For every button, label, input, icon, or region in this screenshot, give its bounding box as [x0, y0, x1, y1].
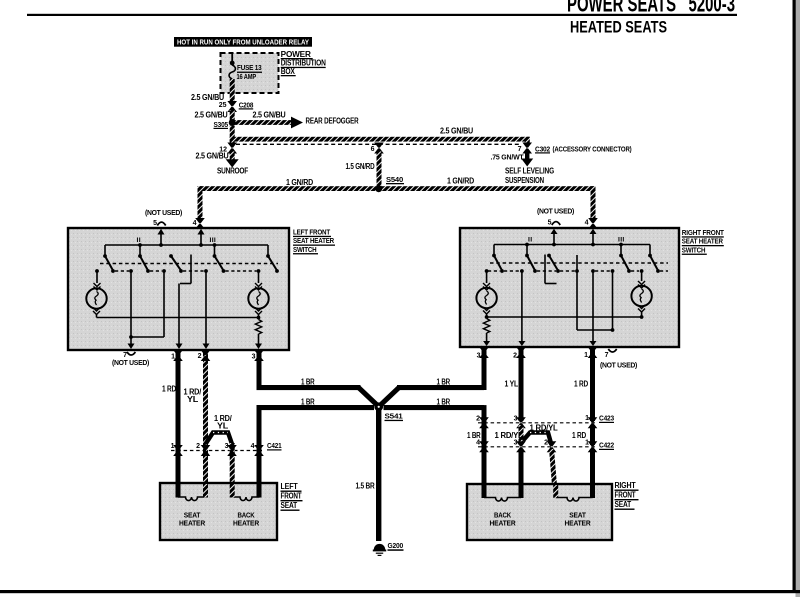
svg-text:1: 1 [584, 352, 588, 359]
svg-text:1 RD/YL: 1 RD/YL [495, 431, 523, 440]
svg-text:1 BR: 1 BR [437, 397, 451, 406]
svg-text:S305: S305 [214, 122, 229, 129]
svg-text:4: 4 [585, 220, 589, 227]
svg-text:7: 7 [123, 352, 127, 359]
svg-text:BOX: BOX [281, 67, 296, 76]
svg-text:1 YL: 1 YL [505, 380, 519, 389]
svg-text:3: 3 [252, 354, 256, 361]
svg-text:2.5 GN/BU: 2.5 GN/BU [195, 110, 228, 119]
svg-text:3: 3 [477, 353, 481, 360]
svg-text:5: 5 [548, 220, 552, 227]
svg-text:1: 1 [585, 440, 589, 447]
svg-text:3: 3 [514, 416, 518, 423]
svg-text:4: 4 [251, 443, 255, 450]
svg-text:FRONT: FRONT [281, 492, 302, 501]
svg-text:C423: C423 [599, 416, 614, 423]
svg-text:2: 2 [476, 416, 480, 423]
svg-text:7: 7 [605, 352, 609, 359]
svg-text:III: III [618, 237, 625, 244]
svg-text:.75 GN/WT: .75 GN/WT [491, 155, 525, 162]
svg-text:1 BR: 1 BR [301, 397, 315, 406]
svg-text:1.5 GN/RD: 1.5 GN/RD [346, 162, 375, 171]
svg-text:(ACCESSORY CONNECTOR): (ACCESSORY CONNECTOR) [553, 146, 632, 153]
svg-text:1.5 BR: 1.5 BR [356, 482, 375, 491]
svg-text:2: 2 [196, 443, 200, 450]
svg-text:(NOT USED): (NOT USED) [112, 360, 149, 367]
svg-text:HEATED SEATS: HEATED SEATS [570, 19, 667, 37]
svg-text:HEATER: HEATER [490, 519, 517, 528]
svg-text:SUSPENSION: SUSPENSION [505, 176, 544, 185]
svg-text:1 BR: 1 BR [301, 377, 315, 386]
svg-text:16 AMP: 16 AMP [237, 72, 257, 81]
svg-text:C208: C208 [239, 102, 254, 109]
svg-text:POWER SEATS 5200-3: POWER SEATS 5200-3 [567, 0, 735, 17]
svg-text:SEAT: SEAT [615, 500, 632, 509]
svg-text:G200: G200 [388, 543, 404, 550]
svg-text:II: II [137, 237, 141, 244]
svg-text:LEFT FRONT: LEFT FRONT [293, 230, 331, 237]
svg-text:FUSE 13: FUSE 13 [237, 63, 262, 72]
svg-text:1 GN/RD: 1 GN/RD [447, 176, 474, 185]
svg-text:YL: YL [217, 422, 228, 431]
svg-text:(NOT USED): (NOT USED) [145, 210, 182, 217]
svg-text:HEATER: HEATER [233, 519, 260, 528]
svg-text:1 GN/RD: 1 GN/RD [286, 178, 313, 187]
svg-text:HOT IN RUN ONLY FROM UNLOADER: HOT IN RUN ONLY FROM UNLOADER RELAY [177, 38, 309, 47]
svg-text:SEAT HEATER: SEAT HEATER [293, 238, 334, 245]
svg-text:SEAT HEATER: SEAT HEATER [682, 239, 723, 246]
svg-text:LEFT: LEFT [281, 482, 298, 491]
svg-text:1 RD: 1 RD [162, 385, 176, 394]
svg-text:3: 3 [225, 443, 229, 450]
svg-text:III: III [210, 237, 217, 244]
svg-text:2: 2 [544, 440, 548, 447]
svg-text:1 RD/YL: 1 RD/YL [530, 424, 558, 433]
svg-text:RIGHT FRONT: RIGHT FRONT [682, 230, 725, 237]
svg-text:1 RD: 1 RD [574, 380, 588, 389]
svg-text:YL: YL [187, 395, 198, 404]
svg-text:2.5 GN/BU: 2.5 GN/BU [191, 93, 224, 102]
svg-text:S540: S540 [386, 177, 403, 184]
svg-text:(NOT USED): (NOT USED) [537, 209, 574, 216]
svg-text:1: 1 [171, 443, 175, 450]
svg-text:4: 4 [476, 440, 480, 447]
svg-text:7: 7 [518, 146, 522, 153]
svg-text:C422: C422 [599, 443, 614, 450]
svg-text:6: 6 [371, 146, 375, 153]
svg-text:1 BR: 1 BR [437, 377, 451, 386]
svg-text:II: II [528, 237, 532, 244]
svg-text:C302: C302 [535, 146, 550, 153]
svg-text:SUNROOF: SUNROOF [217, 167, 248, 176]
svg-text:SELF LEVELING: SELF LEVELING [505, 167, 554, 176]
svg-text:5: 5 [153, 220, 157, 227]
svg-text:25: 25 [219, 102, 227, 109]
svg-text:3: 3 [514, 440, 518, 447]
svg-text:SEAT: SEAT [281, 501, 298, 510]
svg-text:C421: C421 [267, 443, 282, 450]
svg-text:FRONT: FRONT [615, 491, 636, 500]
svg-text:4: 4 [193, 220, 197, 227]
svg-text:1: 1 [585, 415, 589, 422]
svg-text:2.5 GN/BU: 2.5 GN/BU [196, 152, 229, 161]
svg-text:HEATER: HEATER [565, 519, 592, 528]
svg-text:HEATER: HEATER [179, 519, 206, 528]
svg-text:SWITCH: SWITCH [682, 247, 706, 254]
svg-text:2.5 GN/BU: 2.5 GN/BU [440, 127, 473, 136]
svg-text:2.5 GN/BU: 2.5 GN/BU [253, 110, 286, 119]
svg-text:2: 2 [198, 353, 202, 360]
svg-text:S541: S541 [385, 414, 403, 421]
svg-text:2: 2 [513, 353, 517, 360]
svg-text:(NOT USED): (NOT USED) [600, 363, 637, 370]
svg-text:RIGHT: RIGHT [615, 481, 636, 490]
svg-text:REAR DEFOGGER: REAR DEFOGGER [306, 117, 359, 126]
svg-text:SWITCH: SWITCH [293, 247, 317, 254]
